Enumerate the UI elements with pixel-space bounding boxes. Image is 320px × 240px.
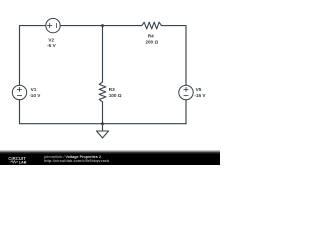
voltage source V2 (46, 18, 60, 32)
svg-text:-5 V: -5 V (47, 43, 56, 48)
CircuitLab logo (0, 0, 40, 165)
svg-text:V5: V5 (196, 87, 202, 92)
wire bottom: bottom rail (20, 123, 187, 125)
label V1 value (29, 87, 41, 98)
wire middle-top: top rail junction down to R3 (102, 26, 104, 82)
wire left-bottom: V1 bottom terminal to bottom-left corner (19, 100, 21, 124)
wire top-right: R4 right lead to V5 top terminal (162, 26, 187, 86)
ground (97, 131, 109, 138)
node junction bottom (101, 122, 104, 125)
wire ground lead (102, 124, 104, 131)
resistor R4 (142, 22, 162, 29)
wire middle-bottom: R3 to bottom rail (102, 102, 104, 124)
node junction top (101, 24, 104, 27)
voltage source V5 (179, 85, 193, 99)
svg-text:V2: V2 (48, 38, 54, 43)
svg-text:100 Ω: 100 Ω (109, 93, 122, 98)
svg-text:LAB: LAB (19, 160, 27, 164)
wire right-bottom: V5 bottom terminal to bottom-right corner (185, 100, 187, 124)
label V5 value (194, 87, 206, 98)
svg-text:R3: R3 (109, 87, 115, 92)
voltage source V1 (12, 85, 26, 99)
label R3 value (109, 87, 122, 98)
wire top-middle: V2 right terminal to R4 left lead (60, 25, 142, 27)
label V2 value (47, 38, 56, 49)
watermark caption (44, 156, 109, 163)
svg-text:200 Ω: 200 Ω (145, 40, 158, 45)
resistor R3 (99, 82, 106, 102)
svg-text:-15 V: -15 V (194, 93, 206, 98)
svg-text:R4: R4 (148, 34, 154, 39)
label R4 value (145, 34, 158, 45)
wire top-left: corner to V2 left terminal (20, 26, 46, 86)
watermark bar (0, 150, 220, 165)
